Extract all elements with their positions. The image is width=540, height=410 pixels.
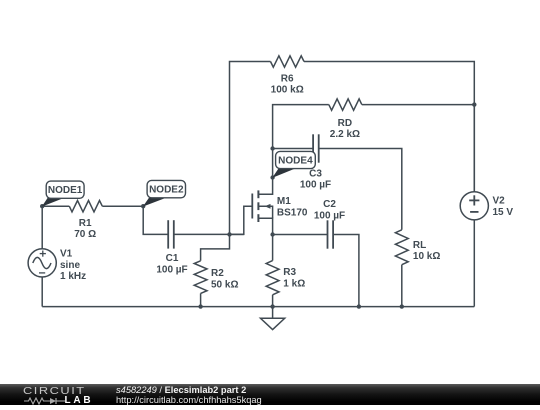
wire RD row right to V2 column xyxy=(362,104,475,106)
wire C2 right down to bottom rail xyxy=(333,235,359,307)
CircuitLab logo wordmark xyxy=(23,386,86,397)
node junction dot C1/R2/gate xyxy=(227,232,231,236)
node junction dot NODE1 xyxy=(40,204,44,208)
svg-text:R1: R1 xyxy=(79,218,92,229)
svg-text:R3: R3 xyxy=(283,267,296,278)
svg-text:R6: R6 xyxy=(281,73,294,84)
resistor RD xyxy=(329,99,362,110)
node label NODE4 xyxy=(272,151,315,178)
node junction dot ground xyxy=(270,304,274,308)
resistor R1 xyxy=(69,201,102,212)
wire NODE1 to R1 xyxy=(42,205,69,207)
node label NODE2 xyxy=(143,180,186,206)
svg-text:2.2 kΩ: 2.2 kΩ xyxy=(330,129,360,140)
wire V1 bottom xyxy=(41,277,43,307)
svg-text:100 µF: 100 µF xyxy=(300,180,331,191)
svg-text:C1: C1 xyxy=(166,253,179,264)
svg-text:NODE4: NODE4 xyxy=(278,156,313,167)
svg-text:15 V: 15 V xyxy=(493,207,514,218)
V1 minus sign xyxy=(39,272,45,274)
voltage source V1 circle xyxy=(28,249,56,277)
svg-text:sine: sine xyxy=(60,260,80,271)
wire C1 to gate bend xyxy=(174,206,253,234)
svg-text:50 kΩ: 50 kΩ xyxy=(211,279,238,290)
svg-text:M1: M1 xyxy=(277,196,291,207)
transistor M1 body arrow xyxy=(265,204,271,209)
transistor M1 drain lead xyxy=(258,178,272,195)
wire RD row left xyxy=(273,105,329,149)
svg-text:R2: R2 xyxy=(211,268,224,279)
transistor M1 source lead xyxy=(258,218,272,234)
svg-text:70 Ω: 70 Ω xyxy=(74,229,96,240)
wire V1 top xyxy=(41,206,43,249)
V1 plus sign xyxy=(40,251,46,257)
node junction dot RD-V2 xyxy=(472,102,476,106)
V1 sine symbol xyxy=(33,257,51,268)
ground triangle xyxy=(261,318,285,329)
wire V2 top xyxy=(473,105,475,192)
svg-text:C3: C3 xyxy=(309,168,322,179)
node junction dot source/C2/R3 xyxy=(270,232,274,236)
node junction dot NODE4 xyxy=(270,175,274,179)
svg-text:10 kΩ: 10 kΩ xyxy=(413,251,440,262)
CircuitLab logo LAB xyxy=(65,395,94,406)
svg-text:100 µF: 100 µF xyxy=(314,211,345,222)
capacitor C2 xyxy=(328,220,334,248)
wire source junction to C2 xyxy=(273,234,328,236)
wire drain up to NODE4 xyxy=(272,149,274,178)
capacitor C1 xyxy=(168,220,174,248)
svg-text:V2: V2 xyxy=(493,196,506,207)
node junction dot RL-bottom xyxy=(400,304,404,308)
svg-text:RD: RD xyxy=(338,118,352,129)
resistor R6 xyxy=(271,56,305,67)
V2 plus sign xyxy=(469,195,479,205)
svg-text:C2: C2 xyxy=(323,199,336,210)
node label NODE1 xyxy=(42,181,84,207)
footer title text xyxy=(116,385,246,395)
wire C3 row left xyxy=(273,148,314,150)
wire R2 bottom xyxy=(200,293,202,306)
node junction dot C2-bottom xyxy=(357,304,361,308)
resistor R3 xyxy=(266,261,279,295)
V2 minus sign xyxy=(470,211,478,213)
transistor M1 channel dashes xyxy=(257,190,259,222)
transistor M1 gate bar xyxy=(251,194,253,219)
wire V2 bottom xyxy=(473,220,475,307)
voltage source V2 circle xyxy=(460,192,488,220)
svg-text:V1: V1 xyxy=(60,249,73,260)
wire RL bottom xyxy=(401,265,403,307)
node junction dot R2-bottom xyxy=(198,304,202,308)
svg-text:BS170: BS170 xyxy=(277,207,308,218)
node junction dot NODE2 xyxy=(141,204,145,208)
svg-text:NODE1: NODE1 xyxy=(48,185,83,196)
wire R3 bottom xyxy=(272,295,274,307)
capacitor C3 xyxy=(313,134,319,162)
svg-text:100 kΩ: 100 kΩ xyxy=(271,85,304,96)
svg-text:1 kΩ: 1 kΩ xyxy=(283,279,305,290)
wire C3 row right down to RL xyxy=(319,149,402,230)
node junction dot C3 branch xyxy=(270,146,274,150)
wire R2 branch xyxy=(201,234,230,260)
svg-text:NODE2: NODE2 xyxy=(149,185,184,196)
svg-text:100 µF: 100 µF xyxy=(156,265,187,276)
resistor RL xyxy=(395,230,408,265)
svg-text:1 kHz: 1 kHz xyxy=(60,271,86,282)
CircuitLab logo squiggle xyxy=(23,397,67,405)
resistor R2 xyxy=(194,261,207,294)
wire R3 top xyxy=(272,235,274,261)
wire R1 to NODE2 and down to C1 row xyxy=(102,206,168,234)
transistor M1 body lead xyxy=(258,206,272,218)
footer url text xyxy=(116,395,262,405)
wire top right segment after R6 xyxy=(304,62,474,192)
footer bar xyxy=(0,384,540,405)
svg-text:RL: RL xyxy=(413,240,426,251)
wire bottom rail xyxy=(42,306,474,308)
wire top loop: from top-left corner to top-right corner xyxy=(230,62,271,235)
transistor M1 gate lead wire xyxy=(230,233,244,235)
ground stem xyxy=(272,307,274,319)
